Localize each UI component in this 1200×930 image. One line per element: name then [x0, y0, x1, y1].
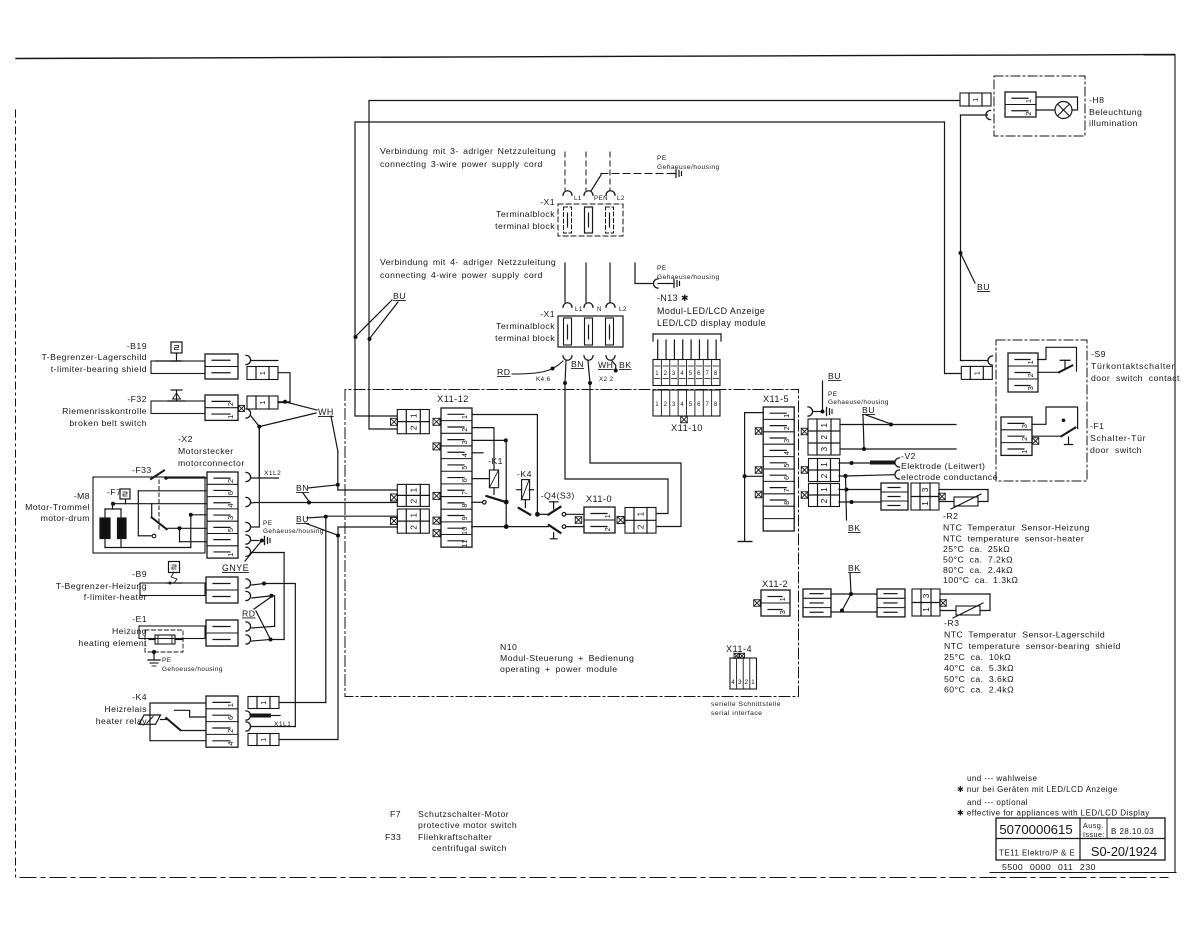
svg-text:connecting 4-wire power s: connecting 4-wire power supply cord: [380, 270, 543, 280]
svg-text:-K4: -K4: [132, 692, 147, 702]
connector R2 inline: [881, 483, 908, 510]
label BU on branch: [961, 253, 990, 292]
svg-text:-X2: -X2: [178, 434, 193, 444]
svg-text:PE: PE: [263, 520, 272, 527]
sensor B9: [166, 562, 182, 585]
connector to S9: [961, 356, 992, 380]
svg-text:2: 2: [226, 402, 235, 407]
svg-text:2: 2: [408, 525, 418, 530]
svg-text:1: 1: [974, 371, 981, 375]
relay K1 coil: [489, 470, 498, 495]
switch F1: [1032, 407, 1078, 445]
svg-text:5: 5: [226, 528, 235, 533]
svg-text:NTC Temperatur Sensor-Heizun: NTC Temperatur Sensor-Heizung: [943, 523, 1090, 533]
svg-text:GNYE: GNYE: [222, 563, 249, 573]
svg-text:S0-20/1924: S0-20/1924: [1091, 844, 1157, 859]
electrode V2 upper: [872, 458, 900, 467]
svg-text:50°C ca. 3.6kΩ: 50°C ca. 3.6kΩ: [944, 674, 1014, 684]
label F1: [1090, 421, 1146, 455]
svg-text:6: 6: [697, 371, 701, 377]
svg-text:f-limiter-heater: f-limiter-heater: [84, 592, 147, 602]
svg-text:-Q4(S3): -Q4(S3): [541, 491, 575, 501]
terminal block X1 lower (4-wire): [558, 316, 623, 347]
svg-text:4: 4: [226, 741, 235, 746]
svg-text:✱ effective for appliances: ✱ effective for appliances with LED/LCD …: [957, 809, 1150, 818]
svg-text:NTC temperature sensor-beari: NTC temperature sensor-bearing shield: [944, 641, 1121, 651]
svg-text:-B9: -B9: [132, 569, 147, 579]
terminals L1 N L2 lower arcs: [563, 303, 627, 313]
svg-text:K4.6: K4.6: [536, 376, 551, 383]
wire BU pair lower: [336, 527, 397, 538]
svg-text:2: 2: [664, 371, 668, 377]
svg-text:8: 8: [714, 402, 718, 408]
svg-text:100°C ca. 1.3kΩ: 100°C ca. 1.3kΩ: [943, 575, 1018, 585]
ground PE right: [808, 407, 832, 416]
terminals L1 PEN L2 upper arcs: [563, 191, 625, 202]
svg-text:Ausg.: Ausg.: [1083, 821, 1104, 830]
svg-text:Modul-LED/LCD Anzeige: Modul-LED/LCD Anzeige: [657, 306, 765, 316]
svg-text:4: 4: [680, 371, 684, 377]
svg-text:3: 3: [738, 679, 742, 686]
svg-text:motor-drum: motor-drum: [41, 513, 90, 523]
door switch module box (dash-dot): [996, 340, 1087, 481]
svg-text:Verbindung mit 4- adriger: Verbindung mit 4- adriger Netzzuleitung: [380, 257, 556, 267]
wires R2 feed: [839, 488, 881, 505]
svg-text:7: 7: [706, 402, 710, 408]
svg-text:1: 1: [462, 415, 469, 419]
svg-text:3: 3: [1026, 386, 1035, 391]
thermal limiter B19 body: [151, 361, 205, 374]
connector H8 pins: [986, 92, 1036, 120]
svg-text:L1: L1: [575, 306, 583, 313]
svg-text:50°C ca. 7.2kΩ: 50°C ca. 7.2kΩ: [943, 555, 1013, 565]
document number: [1002, 862, 1096, 872]
svg-text:-E1: -E1: [132, 614, 147, 624]
wire X11-12 pin6 to K1 coil side: [472, 478, 489, 480]
label E1 heating element: [78, 614, 147, 648]
svg-text:broken belt switch: broken belt switch: [69, 418, 147, 428]
svg-text:1: 1: [778, 597, 787, 602]
svg-text:BK: BK: [848, 563, 861, 573]
note wahlweise: [957, 774, 1150, 818]
svg-text:-B19: -B19: [127, 341, 147, 351]
ground PE E1: [148, 650, 223, 673]
label R3 values: [944, 618, 1121, 695]
connector box R2 feed: [801, 484, 839, 507]
label X11-0: [586, 494, 612, 504]
svg-text:8: 8: [714, 371, 718, 377]
connector K4 lower pin: [248, 734, 279, 746]
svg-text:BU: BU: [862, 405, 875, 415]
svg-text:-R2: -R2: [943, 511, 958, 521]
wire WH vertical to connectors: [336, 452, 340, 487]
connector box V2: [801, 459, 839, 482]
centrifugal switch F33: [151, 471, 207, 531]
svg-text:1: 1: [226, 414, 235, 419]
label X11-5: [763, 394, 789, 404]
svg-text:2: 2: [1020, 436, 1029, 441]
svg-text:6: 6: [782, 475, 791, 479]
svg-text:3: 3: [921, 593, 931, 598]
svg-text:1: 1: [1020, 449, 1029, 454]
protective switch F7: [120, 489, 130, 499]
label K1: [488, 456, 503, 466]
svg-text:1: 1: [751, 679, 755, 686]
svg-text:door switch: door switch: [1090, 445, 1142, 455]
svg-text:-X1: -X1: [540, 309, 555, 319]
border frame top: [16, 55, 1174, 59]
svg-text:-S9: -S9: [1091, 349, 1106, 359]
svg-text:Gehaeuse/housing: Gehaeuse/housing: [263, 528, 324, 535]
terminal block X1 upper (3-wire, optional dashed): [558, 204, 623, 236]
connector box door-switch wires: [801, 419, 840, 455]
svg-text:3: 3: [920, 487, 930, 492]
svg-text:-F1: -F1: [1090, 421, 1104, 431]
svg-text:RD: RD: [242, 609, 255, 619]
svg-text:1: 1: [261, 700, 268, 704]
ground PE housing upper: [657, 155, 720, 178]
svg-text:1: 1: [782, 413, 791, 417]
motor M8 internal wires: [105, 491, 206, 548]
label BU door wires: [862, 405, 891, 448]
connector R3 inline 1: [803, 589, 831, 617]
wire WH: [588, 360, 613, 385]
wire GNYE from X2 pin5: [251, 553, 285, 640]
connector X2 column: [207, 472, 238, 558]
svg-text:und --- wahlweise: und --- wahlweise: [967, 774, 1037, 783]
connector K4 column: [206, 696, 238, 747]
svg-text:Gehaeuse/housing: Gehaeuse/housing: [657, 274, 720, 281]
label F32 broken belt switch: [62, 394, 147, 428]
switch Q4 upper: [537, 502, 584, 516]
svg-text:2: 2: [462, 427, 469, 431]
svg-text:1: 1: [260, 400, 267, 404]
heating element E1 body: [139, 626, 205, 652]
svg-text:-K1: -K1: [488, 456, 503, 466]
svg-text:6: 6: [462, 478, 469, 482]
connector S9: [1008, 353, 1038, 392]
label R2 values: [943, 511, 1090, 585]
wire X11-5 pin1 feed: [745, 412, 764, 414]
svg-text:PE: PE: [657, 155, 667, 162]
wire BU bus to H8 lamp: [369, 101, 959, 430]
label K4 heater relay: [96, 692, 147, 726]
wire WH to X11-0 connector: [590, 383, 681, 527]
svg-text:3: 3: [672, 402, 676, 408]
wire to F1 upper: [840, 423, 956, 427]
svg-text:8: 8: [782, 500, 791, 504]
svg-text:and --- optional: and --- optional: [967, 798, 1028, 807]
switch Q4 lower: [472, 524, 584, 533]
ground PE X2: [251, 520, 324, 535]
svg-text:2: 2: [1026, 373, 1035, 378]
svg-text:serial interface: serial interface: [711, 710, 762, 717]
connector pair BN WH to X11-12: [338, 484, 440, 506]
wire BN: [563, 359, 584, 385]
svg-text:6: 6: [697, 402, 701, 408]
svg-text:Beleuchtung: Beleuchtung: [1089, 107, 1142, 117]
svg-text:-F32: -F32: [127, 394, 147, 404]
label X11-10: [671, 423, 703, 433]
svg-text:1: 1: [408, 487, 418, 492]
svg-text:-M8: -M8: [74, 491, 90, 501]
svg-text:BU: BU: [393, 291, 406, 301]
label K4 contact: [517, 469, 532, 479]
svg-text:1: 1: [973, 97, 980, 101]
svg-text:2: 2: [819, 498, 829, 503]
wires R3 crossover: [831, 592, 877, 613]
relay K1 contact blade: [472, 496, 505, 504]
resistor R3 NTC: [940, 594, 990, 618]
label connection 3-wire: [380, 146, 556, 169]
svg-text:-F33: -F33: [132, 465, 152, 475]
svg-text:illumination: illumination: [1089, 118, 1138, 128]
svg-text:door switch contact: door switch contact: [1091, 373, 1180, 383]
svg-text:1: 1: [636, 511, 646, 516]
electrode V2 lower: [895, 470, 900, 479]
svg-text:1: 1: [655, 402, 659, 408]
relay K4 contact blade: [519, 508, 531, 515]
connector X11-4: [730, 653, 757, 689]
node BU branch junction: [959, 251, 963, 255]
wire X11-5 pin6 ground stub: [738, 413, 763, 542]
svg-text:Schalter-Tür: Schalter-Tür: [1090, 433, 1146, 443]
svg-text:2: 2: [664, 402, 668, 408]
svg-text:NTC temperature sensor-heate: NTC temperature sensor-heater: [943, 534, 1084, 544]
svg-text:electrode conductance: electrode conductance: [901, 472, 998, 482]
svg-text:2: 2: [819, 434, 829, 439]
svg-text:BU: BU: [296, 514, 309, 524]
connector E1: [206, 620, 238, 646]
label X2 motorconnector: [178, 434, 245, 468]
svg-text:Türkontaktschalter: Türkontaktschalter: [1091, 361, 1175, 371]
svg-text:terminal block: terminal block: [495, 333, 555, 343]
svg-text:9: 9: [462, 516, 469, 520]
svg-text:7: 7: [782, 488, 791, 492]
svg-text:2: 2: [819, 473, 829, 478]
connector pin K4 from B9: [246, 722, 295, 731]
svg-text:BK: BK: [619, 360, 632, 370]
svg-text:6: 6: [226, 715, 235, 720]
svg-text:80°C ca. 2.4kΩ: 80°C ca. 2.4kΩ: [943, 565, 1013, 575]
wire PE to housing lower: [635, 263, 652, 284]
svg-text:2: 2: [408, 498, 418, 503]
svg-text:4: 4: [226, 503, 235, 508]
svg-text:L1: L1: [574, 195, 582, 202]
svg-text:X11-12: X11-12: [437, 394, 469, 404]
svg-text:1: 1: [1026, 360, 1035, 365]
label Q4(S3): [541, 491, 575, 501]
svg-text:1: 1: [1024, 98, 1033, 103]
connector pins B19: [246, 355, 278, 379]
connector R2 mate: [911, 483, 945, 510]
svg-text:X11-0: X11-0: [586, 494, 612, 504]
label RD with leaders: [242, 597, 271, 639]
svg-text:3: 3: [672, 371, 676, 377]
label terminal block X1 lower: [495, 309, 555, 343]
wire RD to K4.6: [497, 361, 563, 383]
svg-text:BU: BU: [977, 282, 990, 292]
relay K4 coil in N10: [517, 480, 534, 508]
svg-text:5: 5: [689, 402, 693, 408]
svg-text:Motorstecker: Motorstecker: [178, 446, 234, 456]
wires mains 4-wire: [565, 263, 610, 302]
svg-text:Modul-Steuerung + Bedienung: Modul-Steuerung + Bedienung: [500, 653, 634, 663]
connector pair mains to X11-12: [391, 410, 441, 434]
connector X11-10 upper row: [653, 334, 721, 386]
svg-text:60°C ca. 2.4kΩ: 60°C ca. 2.4kΩ: [944, 685, 1014, 695]
svg-text:BN: BN: [571, 359, 584, 369]
label H8: [1089, 95, 1142, 128]
connector B19: [205, 354, 238, 379]
label GNYE: [222, 541, 262, 574]
wire BK from V2: [844, 474, 861, 533]
svg-text:1: 1: [655, 371, 659, 377]
svg-text:1: 1: [921, 607, 931, 612]
svg-text:PEN: PEN: [594, 195, 608, 202]
connector X2 pin arcs: [246, 472, 251, 556]
label BN with leaders: [296, 483, 336, 502]
svg-text:Gehaeuse/housing: Gehaeuse/housing: [828, 399, 889, 406]
svg-text:4: 4: [462, 453, 469, 457]
border frame left (dashed): [15, 110, 17, 877]
svg-text:Heizung: Heizung: [112, 626, 147, 636]
label serial interface: [711, 701, 781, 717]
motor M8 label: [25, 491, 90, 523]
svg-text:Elektrode (Leitwert): Elektrode (Leitwert): [901, 461, 985, 471]
motor M8 box: [93, 477, 205, 553]
switch Q4 link lower: [550, 533, 557, 539]
connector pins F32: [246, 396, 278, 418]
label BK R3: [848, 563, 861, 593]
label N10 module: [500, 642, 634, 674]
svg-text:operating + power module: operating + power module: [500, 664, 618, 674]
svg-text:1: 1: [603, 514, 612, 519]
svg-text:3: 3: [226, 515, 235, 520]
svg-text:1: 1: [261, 737, 268, 741]
svg-text:-R3: -R3: [944, 618, 959, 628]
svg-text:2: 2: [603, 527, 612, 532]
svg-text:centrifugal switch: centrifugal switch: [432, 843, 507, 853]
wire BU bus to S9 door switch: [355, 122, 961, 416]
svg-text:X11-4: X11-4: [726, 644, 752, 654]
svg-text:X2 2: X2 2: [599, 376, 614, 383]
svg-text:5070000615: 5070000615: [999, 822, 1072, 837]
svg-text:Schutzschalter-Motor: Schutzschalter-Motor: [418, 809, 509, 819]
wire X11-12 pin1 to Q4: [472, 415, 540, 517]
wire K4 pin1 to BU bus: [279, 517, 326, 703]
svg-text:X11-2: X11-2: [762, 579, 788, 589]
svg-text:-K4: -K4: [517, 469, 532, 479]
svg-text:1: 1: [920, 501, 930, 506]
svg-text:-H8: -H8: [1089, 95, 1104, 105]
svg-text:3: 3: [1020, 424, 1029, 429]
svg-text:F7: F7: [390, 809, 401, 819]
svg-text:1: 1: [226, 552, 235, 557]
svg-text:connecting 3-wire power s: connecting 3-wire power supply cord: [380, 159, 543, 169]
svg-text:-V2: -V2: [901, 451, 916, 461]
svg-text:motorconnector: motorconnector: [178, 458, 245, 468]
wires V2: [839, 461, 895, 478]
lamp H8: [1036, 97, 1078, 119]
wire X11-12 pin2 to K1 coil: [472, 428, 494, 470]
svg-text:11: 11: [462, 539, 469, 547]
svg-text:25°C ca. 10kΩ: 25°C ca. 10kΩ: [944, 652, 1011, 662]
svg-text:Terminalblock: Terminalblock: [496, 209, 555, 219]
svg-text:TE11 Elektro/P & E: TE11 Elektro/P & E: [999, 849, 1075, 858]
connector to H8: [960, 93, 991, 106]
svg-text:3: 3: [819, 446, 829, 451]
connector F1: [1001, 417, 1039, 455]
svg-text:X11-10: X11-10: [671, 423, 703, 433]
wire to F1 lower: [840, 447, 956, 451]
terminal X1 bottom arcs: [563, 356, 615, 361]
svg-text:4: 4: [731, 679, 735, 686]
legend F7 F33: [385, 809, 517, 853]
svg-text:1: 1: [226, 703, 235, 708]
wire F32 to WH node: [251, 400, 290, 477]
wire X2 pin4 to PE ground: [251, 537, 270, 545]
connector pins K4: [248, 697, 279, 709]
ground PE housing lower: [653, 265, 719, 288]
svg-text:protective motor switch: protective motor switch: [418, 820, 517, 830]
label X11-2: [762, 579, 788, 589]
svg-text:X11-5: X11-5: [763, 394, 789, 404]
svg-text:serielle Schnittstelle: serielle Schnittstelle: [711, 701, 781, 708]
svg-text:RD: RD: [497, 367, 510, 377]
label BU with leaders: [296, 514, 337, 535]
wire PE to housing upper: [591, 174, 670, 192]
label F7: [107, 487, 121, 497]
svg-text:L2: L2: [619, 306, 627, 313]
label F33: [132, 465, 152, 475]
svg-text:N10: N10: [500, 642, 517, 652]
broken belt switch F32 body: [151, 401, 205, 414]
svg-text:5500 0000 011 230: 5500 0000 011 230: [1002, 862, 1096, 872]
svg-text:terminal block: terminal block: [495, 221, 555, 231]
label B19 t-limiter bearing shield: [42, 341, 147, 374]
svg-text:5: 5: [689, 371, 693, 377]
connector X11-12 column: [441, 408, 472, 547]
svg-text:1: 1: [819, 462, 829, 467]
resistor R2 NTC: [939, 490, 988, 510]
thermal limiter B9 body: [140, 583, 205, 596]
svg-text:2: 2: [636, 524, 646, 529]
wire B19 to WH node: [278, 373, 290, 402]
connector F32: [205, 395, 245, 420]
wire BK: [612, 360, 632, 373]
svg-text:PE: PE: [162, 657, 171, 664]
svg-text:T-Begrenzer-Lagerschild: T-Begrenzer-Lagerschild: [42, 352, 147, 362]
svg-text:t-limiter-bearing shield: t-limiter-bearing shield: [51, 364, 147, 374]
svg-text:L2: L2: [617, 195, 625, 202]
connector X11-0 mate: [617, 508, 656, 534]
svg-text:Riemenrisskontrolle: Riemenrisskontrolle: [62, 406, 147, 416]
svg-text:8: 8: [462, 503, 469, 507]
svg-text:B 28.10.03: B 28.10.03: [1111, 827, 1154, 836]
svg-text:PE: PE: [657, 265, 667, 272]
svg-text:7: 7: [462, 491, 469, 495]
svg-text:BN: BN: [296, 483, 309, 493]
svg-text:T-Begrenzer-Heizung: T-Begrenzer-Heizung: [56, 581, 147, 591]
wires E1: [252, 626, 284, 641]
wire BN from X2: [251, 501, 398, 505]
wire H8 to S9 branch: [961, 115, 988, 361]
svg-text:7: 7: [706, 371, 710, 377]
label X11-4: [726, 644, 752, 654]
connector X11-2: [754, 590, 790, 616]
wire K4 pin2 to BU bus: [279, 536, 338, 740]
